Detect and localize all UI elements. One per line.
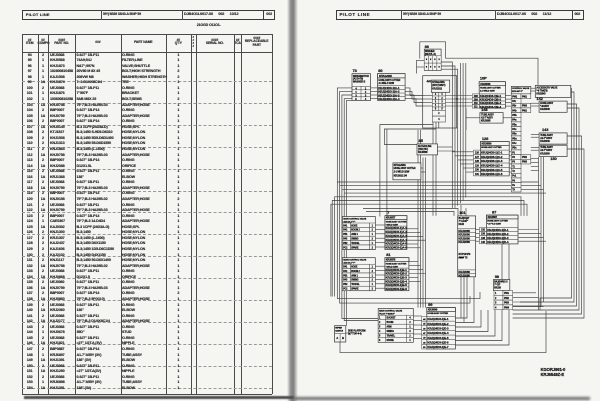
svg-text:HOSE: HOSE: [351, 267, 358, 269]
svg-text:KRJ0568: KRJ0568: [418, 151, 428, 154]
svg-text:128: 128: [482, 136, 489, 141]
svg-text:32'D-9N"-7": 32'D-9N"-7": [512, 91, 523, 93]
svg-text:142: 142: [536, 96, 543, 101]
svg-text:2-1 WELD 1/2W: 2-1 WELD 1/2W: [379, 83, 395, 85]
svg-text:PW2: PW2: [504, 297, 510, 300]
svg-text:WASHER: WASHER: [425, 50, 435, 53]
svg-text:KRJ(24D3-1)D-4: KRJ(24D3-1)D-4: [487, 240, 509, 244]
svg-text:KRJ6578: KRJ6578: [386, 259, 396, 262]
svg-text:PW3: PW3: [522, 161, 528, 164]
svg-text:SPARE: SPARE: [387, 339, 395, 342]
svg-text:SAMT-B: SAMT-B: [335, 329, 343, 332]
svg-text:MAIN CONTROL VALVE: MAIN CONTROL VALVE: [379, 309, 402, 312]
svg-text:KRJ(24D3-1)E-2: KRJ(24D3-1)E-2: [427, 322, 449, 326]
svg-text:BOOM: BOOM: [387, 322, 394, 324]
svg-text:KRJ6566: KRJ6566: [482, 143, 493, 146]
svg-text:HOSE ASSY CUTTER: HOSE ASSY CUTTER: [394, 167, 416, 170]
svg-text:SWING: SWING: [387, 331, 395, 333]
svg-text:MAIN CONTROL VALVE: MAIN CONTROL VALVE: [343, 259, 366, 262]
svg-text:10P: 10P: [480, 75, 487, 80]
svg-text:KRJ(24D3-1)E-4: KRJ(24D3-1)E-4: [427, 331, 449, 335]
svg-text:PAr: PAr: [512, 100, 516, 103]
svg-text:PW3: PW3: [522, 105, 528, 108]
svg-text:KITAGAWA: KITAGAWA: [379, 74, 392, 78]
svg-text:KRJ(24D3-1)E-1: KRJ(24D3-1)E-1: [427, 317, 449, 321]
svg-text:ARM 1: ARM 1: [351, 274, 358, 277]
svg-text:HOSE ASSY CUTTER: HOSE ASSY CUTTER: [481, 146, 502, 149]
svg-text:PBr: PBr: [512, 105, 516, 108]
svg-text:*-6 7"8-D 1/2W: *-6 7"8-D 1/2W: [487, 224, 502, 226]
svg-text:HOSE ASSY CUTTER: HOSE ASSY CUTTER: [386, 220, 407, 223]
svg-text:KRJ6549: KRJ6549: [428, 309, 438, 312]
svg-text:PW1: PW1: [512, 95, 518, 98]
svg-text:98: 98: [495, 274, 500, 279]
svg-text:PW3: PW3: [504, 302, 510, 305]
svg-text:SWING: SWING: [351, 239, 359, 241]
svg-text:PBa: PBa: [512, 123, 517, 126]
svg-text:KRJ(24D3-1)A-4: KRJ(24D3-1)A-4: [378, 97, 400, 101]
svg-text:SPARE: SPARE: [351, 246, 359, 249]
svg-text:(NET;7L-X): (NET;7L-X): [425, 54, 436, 56]
svg-text:KRJ6577: KRJ6577: [386, 217, 396, 220]
svg-text:KRJ(24D3-1)E-6: KRJ(24D3-1)E-6: [427, 340, 449, 344]
svg-text:KRJ(24D3-1)B-6: KRJ(24D3-1)B-6: [386, 287, 408, 291]
svg-text:WIPER: WIPER: [335, 328, 342, 330]
svg-text:BOOM 2: BOOM 2: [351, 230, 360, 232]
svg-text:#### T3: #### T3: [459, 256, 468, 260]
svg-text:80: 80: [378, 68, 383, 73]
svg-text:7: 7: [387, 210, 390, 215]
svg-text:KRJ2048: KRJ2048: [540, 108, 550, 111]
svg-text:HOSE ASSY CUTTER: HOSE ASSY CUTTER: [487, 220, 508, 223]
svg-text:148: 148: [481, 107, 488, 112]
svg-text:KITAGAWA: KITAGAWA: [394, 164, 406, 167]
svg-text:TRAVEL: TRAVEL: [387, 335, 396, 338]
svg-text:KRJ(24D3-1)C-6: KRJ(24D3-1)C-6: [481, 172, 503, 176]
svg-text:PW1: PW1: [504, 292, 510, 295]
svg-text:KRJ2043: KRJ2043: [536, 93, 546, 96]
svg-text:ACCESSORY VALVE: ACCESSORY VALVE: [536, 86, 557, 89]
svg-text:KRJ2085: KRJ2085: [481, 120, 491, 123]
svg-text:PBb: PBb: [512, 114, 517, 117]
svg-text:KRJ(24D3-1)E-7: KRJ(24D3-1)E-7: [427, 345, 449, 349]
svg-text:PW2: PW2: [522, 156, 528, 159]
svg-text:KRJ2080: KRJ2080: [458, 273, 470, 277]
svg-text:B: B: [342, 336, 344, 340]
svg-text:143: 143: [542, 127, 549, 132]
svg-text:BAJ(D4P)C-3: BAJ(D4P)C-3: [494, 280, 508, 283]
svg-text:4: 4: [441, 104, 443, 107]
svg-text:2-1 WELD 1/2W: 2-1 WELD 1/2W: [394, 172, 410, 174]
svg-text:WASHER B: WASHER B: [353, 80, 365, 83]
svg-text:KRJ2012 1/4: KRJ2012 1/4: [394, 174, 408, 177]
svg-text:B(7"77A*-4-4): B(7"77A*-4-4): [348, 333, 362, 336]
svg-text:101: 101: [459, 210, 466, 215]
svg-text:PW1: PW1: [522, 95, 528, 98]
svg-text:HOSE ASSY CUTTER: HOSE ASSY CUTTER: [386, 262, 407, 265]
svg-text:MAIN CONTROL VALVE: MAIN CONTROL VALVE: [343, 217, 366, 220]
svg-text:SKID PLATFORM: SKID PLATFORM: [348, 330, 366, 333]
svg-text:7"-5-D47": 7"-5-D47": [459, 220, 469, 223]
svg-text:44: 44: [427, 79, 432, 84]
svg-text:KRJ2080: KRJ2080: [458, 240, 470, 244]
svg-text:HOSE ASSY CUTTER: HOSE ASSY CUTTER: [428, 312, 449, 315]
svg-text:2-1 WELD 1/2W: 2-1 WELD 1/2W: [480, 90, 496, 92]
svg-text:CONTROL VALVE: CONTROL VALVE: [512, 87, 530, 90]
svg-text:KRJ6546: KRJ6546: [480, 83, 491, 86]
svg-text:PAb: PAb: [512, 109, 517, 112]
svg-text:BUCKET: BUCKET: [387, 318, 397, 320]
svg-text:HOSE ASSY CUTTER: HOSE ASSY CUTTER: [379, 79, 401, 82]
svg-text:TRAVEL: TRAVEL: [351, 283, 360, 286]
svg-text:HOSE: HOSE: [351, 225, 358, 227]
svg-text:A: A: [336, 336, 338, 340]
svg-text:PBc: PBc: [512, 147, 517, 150]
svg-text:KRJ20: KRJ20: [494, 287, 501, 289]
svg-text:PBs: PBs: [512, 133, 517, 136]
svg-text:KRJ(24D3-1)E-3: KRJ(24D3-1)E-3: [427, 326, 449, 330]
svg-text:99: 99: [428, 302, 433, 307]
svg-text:KRJ2049: KRJ2049: [540, 140, 550, 143]
svg-text:ARM 1: ARM 1: [351, 233, 358, 236]
svg-text:86: 86: [425, 44, 430, 49]
svg-text:KRJ2021: KRJ2021: [432, 87, 443, 90]
svg-text:KRJ2: KRJ2: [459, 224, 465, 226]
svg-text:150: 150: [550, 156, 557, 161]
svg-text:*-9 77)4(73): *-9 77)4(73): [536, 89, 547, 92]
svg-text:HOSE ASSY CUTTER: HOSE ASSY CUTTER: [480, 86, 501, 89]
svg-text:87: 87: [492, 209, 497, 214]
svg-text:SWING: SWING: [351, 280, 359, 282]
svg-text:PW4: PW4: [504, 307, 510, 310]
svg-text:BAJ(D4)2T: BAJ(D4)2T: [459, 217, 471, 220]
svg-text:KRJ2050: KRJ2050: [540, 152, 550, 155]
svg-text:BOOM 2: BOOM 2: [351, 271, 360, 273]
svg-text:KRJ6567: KRJ6567: [488, 216, 498, 219]
svg-text:81: 81: [386, 252, 391, 257]
svg-text:PW1: PW1: [522, 109, 528, 112]
svg-text:KVP10470: KVP10470: [459, 252, 471, 256]
svg-text:TRAVEL: TRAVEL: [351, 242, 360, 245]
svg-text:KRJ6549Z-E: KRJ6549Z-E: [541, 372, 565, 377]
svg-text:KRJ(24D3-1)A-6: KRJ(24D3-1)A-6: [386, 246, 408, 250]
svg-text:7"-78": 7"-78": [494, 284, 500, 286]
svg-text:PBu: PBu: [512, 137, 517, 140]
svg-text:SPARE: SPARE: [351, 288, 359, 291]
svg-text:73: 73: [353, 68, 358, 73]
svg-text:KRJ(24D3-1)E-5: KRJ(24D3-1)E-5: [427, 336, 449, 340]
svg-text:85: 85: [419, 138, 424, 143]
svg-text:ARM: ARM: [387, 326, 392, 329]
